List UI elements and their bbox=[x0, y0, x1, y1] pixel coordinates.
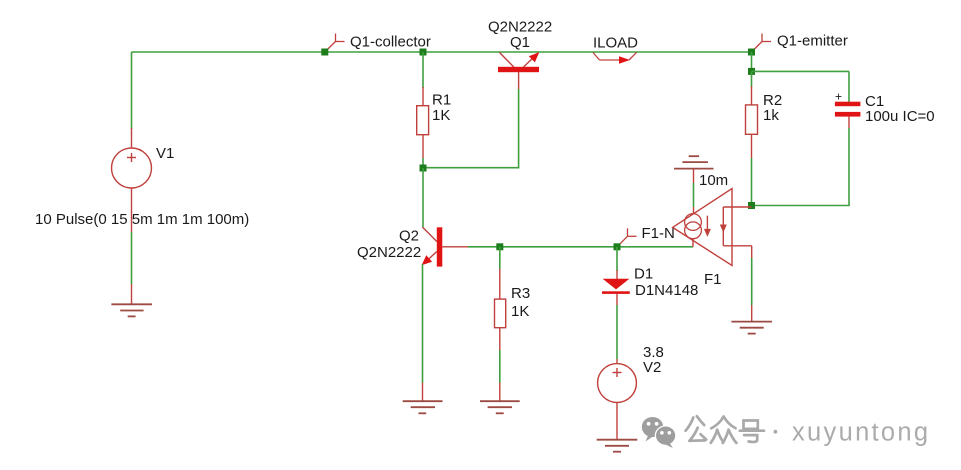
wire Q1 base to R1 node bbox=[423, 89, 519, 168]
node F1-N flag bbox=[617, 228, 637, 247]
wire V2 bottom bbox=[616, 402, 618, 439]
ground R3 bbox=[480, 401, 520, 413]
svg-text:100u IC=0: 100u IC=0 bbox=[865, 108, 935, 125]
wire V1 top bbox=[131, 52, 133, 149]
value R1 1K bbox=[432, 107, 450, 124]
svg-text:1K: 1K bbox=[511, 303, 529, 320]
capacitor C1 bbox=[835, 102, 861, 117]
wire D1 bottom bbox=[616, 294, 618, 364]
watermark text 公众号 (drawn) bbox=[686, 416, 764, 443]
wire F1 ground pin bbox=[693, 169, 695, 214]
svg-text:10m: 10m bbox=[699, 172, 728, 189]
label R2 bbox=[763, 92, 782, 109]
wire R1 bottom bbox=[422, 135, 424, 168]
svg-text:D1: D1 bbox=[634, 265, 653, 282]
node Q1-collector flag bbox=[325, 34, 345, 53]
wire F1 sense to ground bbox=[751, 246, 753, 322]
value D1N4148 bbox=[635, 282, 698, 299]
svg-text:Q1-emitter: Q1-emitter bbox=[777, 32, 848, 49]
svg-text:Q2: Q2 bbox=[399, 227, 419, 244]
svg-text:Q1-collector: Q1-collector bbox=[350, 33, 431, 50]
value F1 10m bbox=[699, 172, 728, 189]
wire Q2 base net bbox=[468, 246, 693, 248]
junction base/D1 bbox=[614, 243, 621, 250]
ground F1 sense bbox=[731, 322, 772, 334]
svg-text:+: + bbox=[835, 90, 842, 104]
label Q2 bbox=[399, 227, 419, 244]
label ILOAD bbox=[593, 34, 638, 51]
svg-text:Q2N2222: Q2N2222 bbox=[357, 244, 421, 261]
label Q2N2222 (Q1 model) bbox=[488, 18, 552, 35]
svg-text:xuyuntong: xuyuntong bbox=[792, 418, 930, 446]
svg-text:V1: V1 bbox=[156, 145, 174, 162]
wire D1 top bbox=[616, 247, 618, 279]
label C1 bbox=[865, 93, 884, 110]
value V1 pulse spec bbox=[35, 211, 249, 228]
value R2 1k bbox=[763, 107, 779, 124]
resistor R2 bbox=[746, 105, 758, 134]
label Q1 bbox=[510, 34, 530, 51]
wire R1 top bbox=[422, 52, 424, 106]
node Q1-emitter flag bbox=[752, 34, 772, 53]
junction R2-bottom/C1-bottom/F1 bbox=[748, 202, 755, 209]
resistor R3 bbox=[495, 299, 506, 328]
wire C1 bottom bbox=[752, 117, 850, 206]
label V1 bbox=[156, 145, 174, 162]
diode D1 bbox=[602, 279, 630, 294]
value R3 1K bbox=[511, 303, 529, 320]
svg-text:1K: 1K bbox=[432, 107, 450, 124]
svg-text:Q1: Q1 bbox=[510, 34, 530, 51]
svg-text:F1-N: F1-N bbox=[642, 225, 675, 242]
junction R2/C1 node bbox=[748, 68, 755, 75]
watermark middle dot bbox=[774, 430, 778, 434]
svg-text:R1: R1 bbox=[432, 91, 451, 108]
ground F1 reference (inverted) bbox=[674, 156, 714, 168]
svg-text:D1N4148: D1N4148 bbox=[635, 282, 698, 299]
svg-text:F1: F1 bbox=[704, 271, 722, 288]
label F1 bbox=[704, 271, 722, 288]
voltage source V2 bbox=[598, 364, 637, 403]
wire R3 bottom bbox=[499, 328, 501, 402]
label Q2N2222 (Q2 model) bbox=[357, 244, 421, 261]
ground V1 bbox=[111, 304, 152, 316]
wire main top net bbox=[132, 51, 752, 53]
svg-text:V2: V2 bbox=[643, 359, 661, 376]
wire V1 bottom bbox=[131, 188, 133, 304]
svg-text:ILOAD: ILOAD bbox=[593, 34, 638, 51]
value V2 3.8 bbox=[643, 344, 664, 361]
junction main/Q1-collector bbox=[321, 49, 328, 56]
transistor Q2 bbox=[422, 227, 468, 267]
wire emitter node down bbox=[751, 52, 753, 71]
ground Q2 bbox=[403, 401, 443, 413]
label R1 bbox=[432, 91, 451, 108]
label D1 bbox=[634, 265, 653, 282]
wire R3 top bbox=[499, 247, 501, 299]
label V2 bbox=[643, 359, 661, 376]
watermark text xuyuntong bbox=[792, 418, 930, 446]
wire to C1 top bbox=[752, 71, 850, 102]
voltage source V1 bbox=[112, 148, 152, 188]
wire Q2 collector bbox=[422, 168, 424, 227]
wire Q2 emitter to ground bbox=[422, 264, 424, 401]
junction R1-bottom node bbox=[420, 165, 427, 172]
CCCS F1 bbox=[673, 189, 752, 266]
label Q1-collector bbox=[350, 33, 431, 50]
label F1-N bbox=[642, 225, 675, 242]
wire R2 bottom bbox=[751, 134, 753, 206]
junction main/R1 bbox=[420, 49, 427, 56]
ground V2 bbox=[597, 440, 638, 452]
label R3 bbox=[511, 285, 530, 302]
resistor R1 bbox=[417, 106, 429, 135]
watermark WeChat icon bbox=[642, 417, 677, 448]
label Q1-emitter bbox=[777, 32, 848, 49]
svg-text:1k: 1k bbox=[763, 107, 779, 124]
polarity + of C1 bbox=[835, 90, 842, 104]
svg-text:Q2N2222: Q2N2222 bbox=[488, 18, 552, 35]
wire R2 top bbox=[751, 71, 753, 105]
svg-text:R3: R3 bbox=[511, 285, 530, 302]
svg-text:10 Pulse(0 15 5m 1m 1m 100m): 10 Pulse(0 15 5m 1m 1m 100m) bbox=[35, 211, 249, 228]
junction main/Q1-emitter bbox=[748, 49, 755, 56]
current marker ILOAD bbox=[593, 53, 637, 64]
value C1 100u IC=0 bbox=[865, 108, 935, 125]
junction base/R3 bbox=[496, 243, 503, 250]
transistor Q1 bbox=[498, 52, 539, 89]
